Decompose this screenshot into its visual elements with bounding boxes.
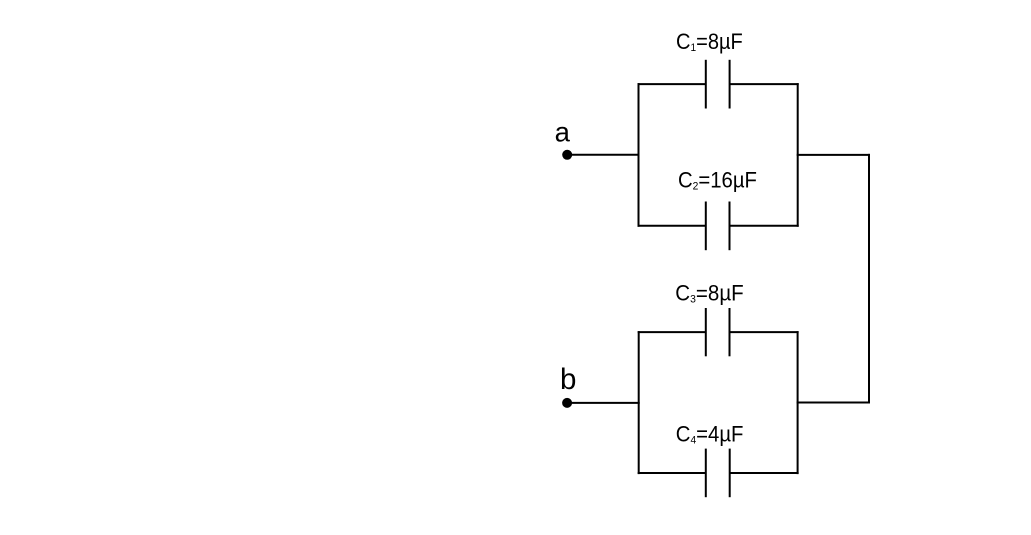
- wire group1 top-right: [730, 83, 799, 85]
- wire group1 bottom-left: [638, 225, 706, 227]
- wire group2 bottom-left: [638, 472, 706, 474]
- svg-text:C2=16µF: C2=16µF: [678, 169, 757, 193]
- wire group2 left vertical: [638, 331, 640, 474]
- wire group1 bottom-right: [730, 225, 799, 227]
- wire group1 right vertical: [797, 83, 799, 227]
- svg-text:b: b: [560, 363, 576, 396]
- wire group2 top-left: [638, 331, 706, 333]
- wire right rail vertical: [868, 154, 870, 404]
- svg-text:a: a: [555, 117, 571, 148]
- wire group1 top-left: [638, 83, 706, 85]
- wire group2 bottom-right: [730, 472, 799, 474]
- wire group1 left vertical: [638, 83, 640, 227]
- svg-text:C1=8µF: C1=8µF: [676, 30, 743, 54]
- capacitor C1: [706, 60, 730, 109]
- capacitor C4: [706, 449, 730, 498]
- capacitor C2: [706, 202, 730, 251]
- wire b to group 2: [567, 402, 640, 404]
- wire group2 right vertical: [797, 331, 799, 474]
- wire group1 output to right rail: [797, 154, 870, 156]
- node b: [562, 398, 572, 408]
- capacitor C3: [706, 308, 730, 356]
- wire group2 top-right: [730, 331, 799, 333]
- svg-text:C4=4µF: C4=4µF: [676, 423, 744, 447]
- wire group2 output to right rail: [797, 402, 870, 404]
- wire a to group 1: [567, 154, 640, 156]
- node a: [562, 150, 572, 160]
- svg-text:C3=8µF: C3=8µF: [675, 282, 743, 306]
